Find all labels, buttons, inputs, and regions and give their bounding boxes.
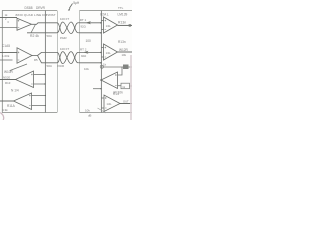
- svg-text:50Ω: 50Ω: [47, 34, 52, 38]
- junction dots: [44, 22, 101, 106]
- left station box: [2, 11, 57, 113]
- svg-text:1/4L: 1/4L: [106, 24, 112, 28]
- svg-text:W12R: W12R: [119, 48, 129, 52]
- U2D +in stub: [101, 97, 104, 99]
- svg-text:dB: dB: [88, 114, 92, 118]
- bus connector circle: [100, 65, 103, 68]
- U1C +input stub: [34, 74, 46, 76]
- twist crossing knots pair1: [59, 27, 75, 58]
- left bus: [44, 11, 46, 113]
- U1B output fanout up: [38, 52, 58, 55]
- twisted pair 1: [57, 22, 80, 34]
- svg-text:4.3k: 4.3k: [2, 108, 8, 112]
- page edge right: [130, 55, 132, 120]
- U2A output wire: [118, 24, 133, 26]
- op-amp U2B: [104, 44, 118, 60]
- svg-text:RT 1: RT 1: [80, 18, 87, 22]
- op-amp input polarity marks: [18, 20, 117, 108]
- return input wire top: [101, 66, 132, 68]
- U1B -input wire: [0, 59, 13, 61]
- pair1 wires to right box: [80, 22, 102, 24]
- svg-text:R13n: R13n: [118, 21, 126, 25]
- op-amp U1B: [17, 48, 32, 63]
- U1D output wire: [0, 100, 14, 102]
- op-amp U2C (driver, points left): [101, 72, 118, 89]
- U1A -input wire: [0, 27, 17, 29]
- diagonal wire below U1B: [10, 64, 27, 71]
- bottom rail left: [2, 112, 57, 114]
- op-amp U1C (receiver, points left): [16, 71, 34, 88]
- op-amp U2D: [104, 95, 120, 112]
- page edge smudge bottom left: [0, 113, 3, 121]
- U1B output fanout down: [38, 56, 58, 63]
- termination blob pair2: [83, 51, 89, 54]
- U2B -in stub: [101, 56, 104, 58]
- svg-text:DRVR: DRVR: [36, 6, 46, 10]
- op-amp U2A: [104, 17, 118, 33]
- termination blob pair1: [86, 21, 92, 24]
- svg-text:92Ω: 92Ω: [81, 54, 86, 58]
- U1B output wire: [32, 55, 38, 57]
- svg-text:R11A: R11A: [7, 104, 16, 108]
- svg-text:100 FT: 100 FT: [60, 47, 69, 51]
- U2B +in stub: [101, 47, 104, 49]
- svg-text:10k: 10k: [85, 108, 90, 112]
- left box left edge: [1, 11, 3, 113]
- svg-text:W10R: W10R: [4, 70, 14, 74]
- U1C output wire: [0, 79, 16, 81]
- svg-text:N 1/4: N 1/4: [11, 88, 19, 92]
- U2C output stub on bus: [93, 88, 101, 90]
- svg-text:10k: 10k: [122, 53, 127, 57]
- U2C +in wire: [118, 67, 123, 75]
- output terminal circle: [129, 24, 131, 26]
- cable boundary left: [56, 11, 58, 113]
- svg-text:R13n: R13n: [118, 40, 126, 44]
- svg-text:50Ω: 50Ω: [47, 64, 52, 68]
- svg-text:100 FT: 100 FT: [60, 17, 69, 21]
- op-amp U1D (receiver, points left): [14, 93, 32, 110]
- svg-text:OUT: OUT: [123, 100, 129, 104]
- svg-text:10k: 10k: [84, 67, 89, 71]
- U1D -input stub: [32, 105, 46, 107]
- U2D output wire: [120, 103, 132, 105]
- right bus: [100, 11, 102, 113]
- svg-text:92Ω: 92Ω: [81, 24, 86, 28]
- svg-text:R2 4k: R2 4k: [30, 34, 39, 38]
- op-amp U1A: [17, 18, 32, 30]
- top rail left: [2, 10, 57, 12]
- svg-text:TTL: TTL: [118, 6, 124, 10]
- resistor box on -in: [121, 83, 130, 89]
- svg-text:RT 2: RT 2: [80, 48, 87, 52]
- pair1 lower wire inside: [27, 32, 57, 34]
- U1D +input stub: [32, 95, 46, 97]
- svg-text:8830 QUAD LINE DR: 8830 QUAD LINE DR: [16, 13, 48, 17]
- component on return wire: [123, 65, 129, 70]
- svg-text:5μH: 5μH: [73, 1, 80, 5]
- svg-text:R14: R14: [113, 92, 119, 96]
- svg-text:1k: 1k: [5, 13, 9, 17]
- svg-text:U2A L: U2A L: [100, 12, 109, 16]
- svg-text:DS88: DS88: [25, 6, 33, 10]
- U1A inverted tap diagonal: [31, 24, 36, 33]
- svg-text:R5: R5: [34, 58, 38, 62]
- U2C -in wire: [118, 85, 122, 87]
- cable boundary right: [79, 11, 81, 113]
- svg-text:N520: N520: [3, 75, 11, 79]
- U2A -in stub: [101, 29, 104, 31]
- twisted pair 2: [57, 52, 80, 64]
- svg-text:LM139: LM139: [118, 12, 128, 16]
- svg-text:1.00k: 1.00k: [2, 54, 10, 58]
- svg-text:3: 3: [7, 20, 9, 24]
- svg-text:PAIR: PAIR: [58, 64, 65, 68]
- U2A +in stub: [101, 20, 104, 22]
- U2B output wire: [118, 51, 133, 53]
- faint diagonal mark near U2D: [98, 108, 107, 113]
- svg-text:R13: R13: [5, 81, 11, 85]
- svg-text:100: 100: [86, 39, 92, 43]
- U1B +input wire: [0, 52, 17, 54]
- svg-text:C1A5: C1A5: [2, 44, 10, 48]
- U1A output wire: [32, 23, 58, 25]
- svg-text:TWIST: TWIST: [46, 13, 56, 17]
- cable pointer arrow: [69, 4, 72, 9]
- svg-text:1k: 1k: [103, 63, 107, 67]
- right station box: [80, 11, 133, 113]
- bottom rail right: [80, 112, 133, 114]
- U1A +input wire: [0, 16, 17, 18]
- pair2 wires to right box: [80, 51, 102, 53]
- top rail right: [80, 10, 133, 12]
- svg-text:PAIR: PAIR: [60, 36, 67, 40]
- svg-text:1k: 1k: [122, 85, 125, 89]
- svg-text:1/4L: 1/4L: [106, 51, 112, 55]
- U1C -input stub: [34, 83, 46, 85]
- U2D -in stub: [101, 107, 104, 109]
- svg-text:1/4L: 1/4L: [107, 102, 113, 106]
